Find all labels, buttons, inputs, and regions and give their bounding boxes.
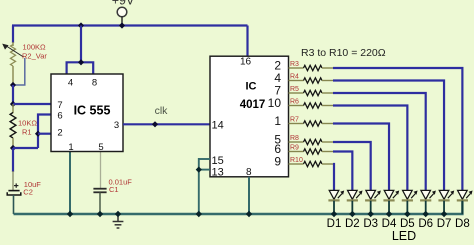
resistor R6 zigzag [304,103,323,108]
LED D3 arrow [374,194,378,199]
wire: R3 to LED D8 [333,68,462,191]
ground symbol [117,214,119,222]
svg-text:R8: R8 [290,135,299,142]
svg-text:4017: 4017 [240,99,266,111]
junction: pin2/pin6 tie [35,131,41,137]
resistor R5 zigzag [304,90,323,95]
wire: tie down to R1 bottom [13,147,38,149]
resistor R8 lead right [322,141,333,143]
LED D6 triangle [421,190,431,199]
potentiometer R2 arrow [6,46,24,58]
capacitor C2 top plate [8,190,19,192]
junction: rail to 555 supply drop [78,22,84,28]
svg-text:2: 2 [57,128,62,139]
junction: bridge [78,59,84,65]
svg-text:8: 8 [246,167,252,178]
resistor R5 lead left [289,92,304,94]
LED D2 cathode bar [347,199,358,201]
wire: 4017 pin 15 [199,158,210,160]
wire: terminal stub [121,17,123,26]
svg-text:D8: D8 [455,218,470,230]
svg-text:9: 9 [274,155,281,169]
LED D5 cathode lead [406,201,408,214]
resistor R4 lead left [289,80,304,82]
svg-text:R2_Var: R2_Var [22,52,47,61]
resistor R9 lead left [289,151,304,153]
svg-text:R6: R6 [290,99,299,106]
svg-text:R3 to R10 = 220Ω: R3 to R10 = 220Ω [301,47,386,59]
svg-text:D6: D6 [418,218,433,230]
svg-text:10: 10 [268,96,282,110]
LED D7 triangle [439,190,449,199]
resistor R5 lead right [322,92,333,94]
junction: C1 on bus [97,211,103,217]
svg-text:13: 13 [212,166,224,178]
resistor R4 zigzag [304,78,323,83]
LED D4 cathode bar [383,199,394,201]
junction: clk wire [152,121,158,127]
svg-text:R7: R7 [290,117,299,124]
wire: R7 to LED D4 [333,124,389,191]
junction: terminal on rail [119,22,125,28]
LED D4 triangle [384,190,394,199]
resistor R3 lead left [289,67,304,69]
junction: pin13 tie [196,167,202,173]
wire: R9 to LED D2 [333,152,352,191]
IC U1 555 body [51,74,123,152]
wire: R10 to LED D1 [333,164,334,191]
junction: D2 on bus [349,211,355,217]
capacitor C1 top plate [93,188,106,190]
wire: R4 to LED D7 [333,81,444,191]
LED D6 cathode lead [425,201,427,214]
svg-text:R3: R3 [290,61,299,68]
IC U2 4017 body [210,56,289,177]
potentiometer R2 leads [12,42,14,46]
junction: ground on bus [115,211,121,217]
junction: pin8 on bus [246,211,252,217]
LED D5 arrow [411,194,415,199]
wire: 555 pin 1 to ground [69,152,71,215]
svg-text:+9V: +9V [112,0,135,8]
LED D7 arrow [448,194,452,199]
LED D6 arrow [430,194,434,199]
resistor R10 lead right [322,163,333,165]
junction: D4 on bus [386,211,392,217]
wire: left vertical from rail [12,26,14,44]
LED D8 arrow [466,194,470,199]
svg-text:15: 15 [212,155,224,167]
capacitor C2 plus sign [15,183,17,187]
wire: 555 pin 6 [38,115,51,149]
wire: pot to R1 [12,85,14,105]
wire: node down to C2 [12,148,14,172]
svg-text:R4: R4 [290,74,299,81]
LED D8 cathode bar [457,199,468,201]
wire: clk (555 pin3 to 4017 pin14) [123,123,210,125]
resistor R10 lead left [289,163,304,165]
wire: R8 to LED D3 [333,142,371,191]
LED D2 cathode lead [351,201,353,214]
svg-text:D7: D7 [437,218,452,230]
LED D3 cathode lead [370,201,372,214]
resistor R8 zigzag [304,139,323,144]
wire: 555 pin 7 to node [13,103,51,105]
capacitor C1 bottom plate [93,191,106,193]
resistor R9 lead right [322,151,333,153]
LED D2 triangle [348,190,358,199]
junction: D5 on bus [404,211,410,217]
resistor R4 lead right [322,80,333,82]
LED D8 cathode lead [461,201,463,214]
svg-text:IC: IC [246,81,257,93]
svg-text:100KΩ: 100KΩ [23,43,47,52]
junction: D1 on bus [331,211,337,217]
wire: pin4-pin8 bridge [67,62,94,74]
svg-text:5: 5 [98,142,103,153]
wire: pins 15+13 down to ground [198,158,200,214]
svg-text:D3: D3 [363,218,378,230]
junction: reset tie on bus [196,211,202,217]
svg-text:C1: C1 [109,185,119,194]
svg-text:D2: D2 [345,218,360,230]
resistor R3 zigzag [304,65,323,70]
resistor R6 lead left [289,105,304,107]
LED D1 cathode bar [328,199,339,201]
resistor R1 zigzag [10,113,16,139]
resistor R7 lead right [322,123,333,125]
svg-text:R10: R10 [290,157,303,164]
LED D1 triangle [329,190,339,199]
LED D7 cathode lead [443,201,445,214]
svg-text:1: 1 [68,142,73,153]
svg-text:1: 1 [274,114,281,128]
svg-text:LED: LED [392,229,416,243]
LED D5 cathode bar [402,199,413,201]
junction: pin1 on bus [67,211,73,217]
junction: D3 on bus [367,211,373,217]
capacitor C2 top lead [12,171,14,190]
junction: D7 on bus [441,211,447,217]
wire: +V top supply rail [12,24,248,26]
wire: R5 to LED D6 [333,93,426,191]
wire: ground bus [14,201,463,215]
LED D2 arrow [356,194,360,199]
resistor R7 zigzag [304,121,323,126]
capacitor C1 bottom lead [99,192,101,214]
potentiometer R2 zigzag [11,45,16,67]
LED D1 cathode lead [333,201,335,214]
wire: 4017 pin 13 [199,169,210,171]
svg-text:14: 14 [212,120,224,132]
svg-text:IC 555: IC 555 [74,104,111,118]
svg-text:D1: D1 [327,218,342,230]
junction: pot wiper node [10,82,16,88]
resistor R9 zigzag [304,149,323,154]
LED D4 arrow [393,194,397,199]
capacitor C2 bottom lead [13,195,15,214]
wire: R6 to LED D5 [333,106,407,191]
svg-text:R5: R5 [290,86,299,93]
resistor R10 zigzag [304,161,323,166]
resistor R6 lead right [322,105,333,107]
LED D5 triangle [403,190,413,199]
power terminal +9V [117,7,127,17]
svg-text:10KΩ: 10KΩ [18,119,37,128]
svg-text:16: 16 [240,56,252,67]
resistor R1 top lead [12,104,14,113]
junction: D6 on bus [423,211,429,217]
wire: drop to 555 pins 4+8 [80,26,82,63]
wire: wiper to bottom of pot [13,58,25,85]
potentiometer R2 lower lead [12,66,14,85]
LED D3 cathode bar [365,199,376,201]
capacitor C2 bottom plate [7,192,21,195]
capacitor C1 top lead [100,152,102,189]
wire: rail drop to IC2 pin 16 [246,26,248,58]
resistor R3 lead right [322,67,333,69]
LED D6 cathode bar [420,199,431,201]
svg-text:3: 3 [114,120,119,131]
svg-text:8: 8 [92,78,97,89]
junction: R1 bottom node [10,145,16,151]
resistor R1 bottom lead [12,138,14,148]
svg-text:6: 6 [57,110,62,121]
resistor R8 lead left [289,141,304,143]
svg-text:R1: R1 [22,128,32,137]
svg-text:C2: C2 [23,187,33,196]
junction: pin7 node [10,101,16,107]
LED D4 cathode lead [388,201,390,214]
wire: 4017 pin 8 to ground [248,177,250,214]
LED D7 cathode bar [438,199,449,201]
resistor R7 lead left [289,123,304,125]
svg-text:R9: R9 [290,145,299,152]
wire: 555 pin 2 [38,133,51,135]
LED D1 arrow [338,194,342,199]
svg-text:clk: clk [155,105,169,117]
svg-text:4: 4 [68,78,73,89]
LED D3 triangle [366,190,376,199]
LED D8 triangle [458,190,468,199]
